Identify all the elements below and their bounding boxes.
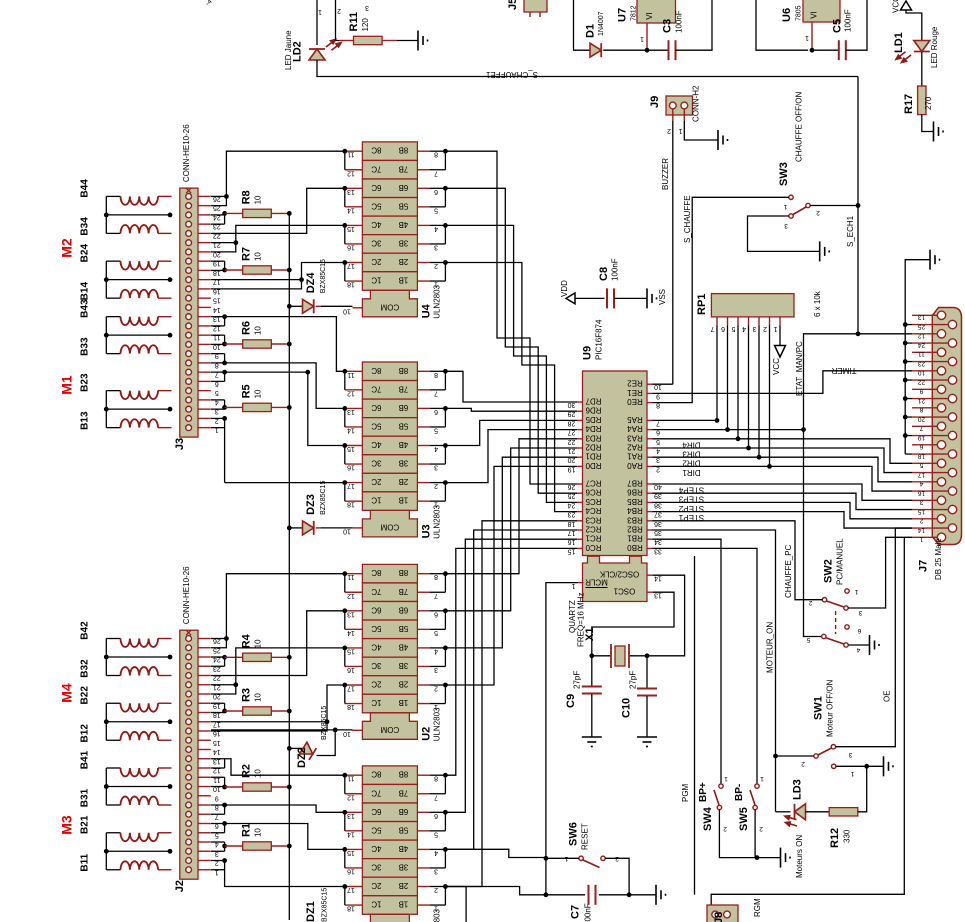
svg-text:8B: 8B — [399, 770, 409, 779]
svg-text:6: 6 — [919, 443, 923, 450]
svg-text:16: 16 — [347, 243, 355, 250]
svg-text:5: 5 — [215, 389, 219, 396]
svg-text:LD1: LD1 — [893, 32, 905, 53]
wire LD1 to R17 — [921, 52, 923, 86]
svg-text:R4: R4 — [241, 633, 253, 648]
motor winding B22 — [80, 686, 172, 712]
svg-text:17: 17 — [347, 482, 355, 489]
svg-text:RA0: RA0 — [627, 461, 643, 470]
svg-text:100nF: 100nF — [844, 9, 853, 32]
svg-text:10: 10 — [254, 693, 263, 702]
svg-text:3: 3 — [919, 499, 923, 506]
switch SW4 BP+ — [653, 539, 758, 857]
svg-text:RGM: RGM — [753, 898, 762, 917]
svg-text:4B: 4B — [399, 440, 409, 449]
svg-text:R6: R6 — [241, 321, 253, 335]
svg-text:2B: 2B — [399, 477, 409, 486]
net labels STEP1-STEP4 — [678, 486, 704, 523]
svg-text:10: 10 — [918, 369, 926, 376]
svg-text:5: 5 — [806, 636, 810, 643]
svg-text:9: 9 — [215, 794, 219, 801]
svg-text:1B: 1B — [399, 698, 409, 707]
svg-text:8: 8 — [919, 406, 923, 413]
svg-text:18: 18 — [347, 703, 355, 710]
svg-text:RESET: RESET — [581, 823, 590, 850]
svg-text:23: 23 — [918, 360, 926, 367]
svg-text:21: 21 — [918, 397, 926, 404]
svg-text:1B: 1B — [399, 496, 409, 505]
ground R17 — [922, 115, 943, 142]
switch SW2 PC/MANUEL — [806, 538, 862, 653]
svg-text:14: 14 — [213, 748, 221, 755]
svg-text:7: 7 — [919, 425, 923, 432]
svg-text:RC5: RC5 — [585, 497, 602, 506]
svg-text:VSS: VSS — [658, 289, 667, 305]
svg-text:2: 2 — [723, 825, 727, 832]
svg-text:B13: B13 — [80, 411, 91, 430]
svg-text:RD3: RD3 — [585, 433, 602, 442]
wire RP1 pins to PIC RA — [653, 326, 772, 469]
svg-text:R12: R12 — [829, 828, 841, 848]
svg-text:M4: M4 — [59, 683, 75, 703]
svg-text:BUZZER: BUZZER — [661, 158, 670, 190]
svg-text:7B: 7B — [399, 164, 409, 173]
svg-text:1: 1 — [318, 8, 322, 15]
crystal X1 QUARTZ — [568, 593, 649, 668]
svg-text:3: 3 — [365, 4, 369, 11]
svg-text:VDD: VDD — [560, 280, 569, 297]
svg-text:OE: OE — [883, 690, 892, 702]
diode D1 1N4007 — [585, 11, 606, 57]
svg-text:R11: R11 — [348, 12, 360, 32]
svg-text:BP-: BP- — [734, 784, 745, 801]
svg-text:7C: 7C — [371, 164, 381, 173]
svg-text:RC2: RC2 — [585, 525, 602, 534]
svg-text:2: 2 — [759, 825, 763, 832]
svg-text:ULN2803: ULN2803 — [433, 707, 442, 741]
svg-text:ULN2803: ULN2803 — [433, 908, 442, 922]
svg-text:MCLR: MCLR — [585, 578, 608, 587]
svg-text:6B: 6B — [399, 605, 409, 614]
wire C5 loop — [846, 0, 867, 50]
wire OE net — [836, 528, 912, 747]
wire MCLR net — [544, 583, 579, 898]
svg-text:12: 12 — [918, 332, 926, 339]
svg-text:10: 10 — [254, 769, 263, 778]
svg-text:5: 5 — [919, 462, 923, 469]
svg-text:J9: J9 — [649, 96, 661, 108]
svg-text:3: 3 — [858, 609, 862, 616]
svg-text:12: 12 — [347, 592, 355, 599]
svg-text:24: 24 — [918, 341, 926, 348]
svg-text:BZX85C15: BZX85C15 — [322, 888, 329, 922]
svg-text:U4: U4 — [421, 303, 433, 318]
motor winding B42 — [80, 621, 172, 647]
svg-text:RD0: RD0 — [585, 461, 602, 470]
capacitor C3 100nF — [662, 10, 684, 60]
svg-text:1: 1 — [783, 203, 787, 210]
driver IC U4 ULN2803 — [343, 142, 441, 319]
wire U2 outputs to J2 — [211, 574, 345, 731]
svg-text:SW1: SW1 — [813, 696, 825, 720]
svg-text:5B: 5B — [399, 201, 409, 210]
svg-text:RD6: RD6 — [585, 406, 602, 415]
svg-text:18: 18 — [347, 281, 355, 288]
wire LD2 to S_CHAUFFE1 line — [317, 60, 858, 77]
svg-text:U7: U7 — [617, 8, 629, 22]
svg-text:RD2: RD2 — [585, 443, 602, 452]
svg-text:13: 13 — [918, 314, 926, 321]
svg-text:6B: 6B — [399, 807, 409, 816]
svg-text:OSC2/CLK: OSC2/CLK — [599, 570, 639, 579]
wire SW3 pin3 to ground — [748, 216, 830, 261]
svg-text:19: 19 — [918, 434, 926, 441]
motor winding B41 — [80, 750, 172, 776]
LED LD1 red — [893, 26, 939, 68]
svg-text:BZX85C15: BZX85C15 — [320, 481, 327, 515]
svg-text:FREQ=16 MHz: FREQ=16 MHz — [577, 593, 586, 647]
svg-text:1C: 1C — [371, 900, 381, 909]
svg-text:RC4: RC4 — [585, 506, 602, 515]
svg-text:3B: 3B — [399, 862, 409, 871]
wire DB25 ground bus — [903, 250, 940, 454]
svg-text:C9: C9 — [565, 694, 577, 708]
svg-text:C8: C8 — [598, 267, 610, 281]
LED LD2 yellow — [284, 30, 341, 70]
svg-text:J8: J8 — [713, 912, 725, 922]
wire MOTEUR_ON — [653, 530, 778, 812]
svg-text:RA3: RA3 — [627, 433, 643, 442]
motor winding B32 — [80, 659, 172, 678]
svg-text:RC7: RC7 — [585, 479, 602, 488]
microcontroller U9 PIC16F874 — [568, 319, 662, 556]
svg-text:CHAUFFE OFF/ON: CHAUFFE OFF/ON — [795, 92, 804, 162]
wire ULN input pairs — [430, 571, 448, 703]
svg-text:D1: D1 — [585, 24, 597, 38]
svg-text:1: 1 — [805, 34, 809, 41]
svg-text:RP1: RP1 — [696, 294, 708, 315]
svg-text:5C: 5C — [371, 201, 381, 210]
ground SW2 — [848, 635, 879, 655]
driver IC U1 ULN2803 — [345, 766, 442, 922]
wire center tap B4x — [104, 196, 173, 233]
svg-text:6B: 6B — [399, 183, 409, 192]
svg-text:BP+: BP+ — [698, 782, 709, 802]
svg-text:2C: 2C — [371, 680, 381, 689]
resistor R5 — [211, 384, 292, 411]
svg-text:14: 14 — [347, 629, 355, 636]
wire U2 COM line — [211, 729, 353, 731]
ground R11 — [397, 31, 428, 51]
wire OSC2 to crystal — [647, 575, 685, 656]
svg-text:4B: 4B — [399, 642, 409, 651]
wire bus U3 to PIC RD7-RD4 — [445, 371, 577, 482]
svg-text:RE0: RE0 — [627, 397, 643, 406]
switch SW6 RESET — [546, 822, 629, 895]
capacitor C9 27pF — [565, 656, 602, 747]
svg-text:10: 10 — [254, 389, 263, 398]
svg-text:10: 10 — [343, 307, 351, 314]
motor winding B34 — [80, 217, 172, 236]
svg-text:8B: 8B — [399, 568, 409, 577]
wire ULN output pairs — [342, 369, 347, 501]
svg-text:13: 13 — [347, 610, 355, 617]
wire center tap B2x — [104, 261, 173, 298]
wire to SW6 — [445, 849, 546, 857]
svg-text:100nF: 100nF — [675, 10, 684, 33]
svg-text:6 x 10k: 6 x 10k — [813, 290, 822, 317]
svg-text:14: 14 — [347, 426, 355, 433]
zener diode DZ3 BZX85C15 — [287, 481, 327, 535]
svg-text:DZ4: DZ4 — [305, 272, 317, 294]
svg-text:VCC: VCC — [892, 0, 901, 13]
LED LD3 — [776, 779, 806, 878]
svg-text:RD4: RD4 — [585, 424, 602, 433]
svg-text:7B: 7B — [399, 587, 409, 596]
svg-text:1: 1 — [678, 127, 682, 134]
svg-text:RA5: RA5 — [627, 415, 643, 424]
svg-text:PIC16F874: PIC16F874 — [595, 319, 604, 360]
svg-text:1N4007: 1N4007 — [598, 11, 605, 36]
resistor R4 — [211, 633, 292, 666]
svg-text:330: 330 — [843, 829, 852, 843]
svg-text:J2: J2 — [174, 880, 186, 892]
svg-text:B32: B32 — [80, 659, 91, 678]
svg-text:7B: 7B — [399, 788, 409, 797]
wire D1 to U7 — [603, 49, 647, 51]
svg-text:R17: R17 — [903, 94, 915, 114]
svg-text:PC/MANUEL: PC/MANUEL — [836, 538, 845, 585]
svg-text:6B: 6B — [399, 403, 409, 412]
connector J9 CONN-H2 — [649, 85, 701, 134]
svg-text:17: 17 — [347, 262, 355, 269]
svg-text:B33: B33 — [80, 337, 91, 356]
svg-text:6C: 6C — [371, 807, 381, 816]
capacitor C8 100nF — [598, 258, 646, 308]
motor winding B24 — [80, 244, 172, 270]
motor winding B13 — [80, 411, 172, 430]
svg-text:16: 16 — [918, 489, 926, 496]
svg-text:6: 6 — [857, 627, 861, 634]
wire center tap B2x — [104, 833, 173, 870]
wire PGM net — [681, 556, 695, 895]
wire ULN output pairs — [342, 149, 347, 281]
svg-text:SW6: SW6 — [568, 822, 580, 846]
svg-text:SW2: SW2 — [823, 559, 835, 583]
svg-text:2: 2 — [919, 517, 923, 524]
wire SW1 pin1 — [836, 756, 893, 776]
svg-text:RA1: RA1 — [627, 452, 643, 461]
svg-text:DZ3: DZ3 — [305, 494, 317, 515]
svg-text:8C: 8C — [371, 146, 381, 155]
svg-text:100nF: 100nF — [611, 258, 620, 281]
svg-text:2C: 2C — [371, 257, 381, 266]
svg-text:15: 15 — [347, 849, 355, 856]
ground J9 — [684, 121, 727, 150]
svg-text:7B: 7B — [399, 384, 409, 393]
resistor network RP1 6x10k — [696, 290, 822, 332]
svg-text:11: 11 — [347, 775, 354, 782]
svg-text:8B: 8B — [399, 146, 409, 155]
svg-text:DZ2: DZ2 — [296, 747, 308, 768]
regulator U6 7805 — [781, 0, 840, 53]
svg-text:SW4: SW4 — [702, 806, 714, 831]
svg-text:COM: COM — [380, 522, 399, 531]
ground SW4 SW5 — [781, 848, 791, 868]
svg-text:18: 18 — [918, 452, 926, 459]
svg-text:4B: 4B — [399, 220, 409, 229]
wire U7 to C3 — [647, 49, 669, 51]
svg-text:3B: 3B — [399, 661, 409, 670]
resistor R6 — [211, 321, 292, 348]
svg-text:DB 25 Male: DB 25 Male — [934, 538, 943, 580]
svg-text:2: 2 — [816, 209, 820, 216]
wire U1 pair to C7 line — [445, 887, 546, 922]
wire center tap B2x — [104, 391, 173, 428]
wire ULN input pairs — [430, 149, 448, 281]
svg-text:2: 2 — [337, 7, 341, 14]
svg-text:1: 1 — [760, 775, 764, 782]
wire loop 12V section — [574, 0, 591, 50]
svg-text:6C: 6C — [371, 605, 381, 614]
svg-text:4C: 4C — [371, 642, 381, 651]
ground C7 — [629, 885, 665, 905]
resistor R3 — [211, 688, 292, 715]
svg-text:J3: J3 — [174, 438, 186, 450]
wire ULN output pairs — [342, 571, 347, 703]
svg-text:1: 1 — [640, 35, 644, 42]
svg-text:J5: J5 — [507, 0, 519, 10]
svg-text:B21: B21 — [80, 815, 91, 834]
wire pin2 to R11 — [336, 0, 341, 41]
svg-text:15: 15 — [213, 297, 221, 304]
svg-text:RE1: RE1 — [627, 388, 643, 397]
wire ULN input pairs — [430, 369, 448, 501]
svg-text:B14: B14 — [80, 282, 91, 301]
svg-text:5B: 5B — [399, 624, 409, 633]
svg-text:LD3: LD3 — [792, 779, 804, 800]
connector J5 (top edge) — [507, 0, 547, 17]
svg-text:6C: 6C — [371, 403, 381, 412]
svg-text:RA2: RA2 — [627, 443, 643, 452]
svg-text:SW3: SW3 — [778, 162, 790, 186]
svg-text:22: 22 — [918, 378, 926, 385]
svg-text:2: 2 — [667, 127, 671, 134]
svg-text:3C: 3C — [371, 661, 381, 670]
svg-text:17: 17 — [918, 471, 926, 478]
svg-text:11: 11 — [918, 351, 925, 358]
svg-text:1: 1 — [850, 770, 854, 777]
svg-text:S_ECH1: S_ECH1 — [846, 215, 855, 247]
wire bus U2 to PIC RD3-RD0 — [445, 439, 577, 685]
svg-text:15: 15 — [347, 445, 355, 452]
svg-text:6: 6 — [721, 325, 725, 332]
svg-text:ULN2803: ULN2803 — [433, 284, 442, 318]
svg-text:RB4: RB4 — [627, 506, 643, 515]
svg-text:S_CHAUFFE: S_CHAUFFE — [683, 195, 692, 243]
svg-text:8B: 8B — [399, 366, 409, 375]
svg-text:6C: 6C — [371, 183, 381, 192]
svg-text:11: 11 — [347, 151, 354, 158]
wire center tap B4x — [104, 639, 173, 676]
svg-text:2B: 2B — [399, 881, 409, 890]
svg-text:B42: B42 — [80, 621, 91, 640]
wire CHAUFFE_PC — [653, 521, 823, 600]
svg-text:4B: 4B — [399, 844, 409, 853]
svg-text:RE2: RE2 — [627, 379, 643, 388]
motor winding B31 — [80, 788, 172, 807]
svg-text:2: 2 — [801, 760, 805, 767]
connector J2 CONN-HE10-26 — [174, 566, 221, 892]
svg-text:18: 18 — [347, 501, 355, 508]
svg-text:U9: U9 — [582, 346, 594, 360]
svg-text:RB2: RB2 — [627, 525, 643, 534]
svg-text:27pF: 27pF — [573, 671, 582, 689]
svg-text:1: 1 — [724, 775, 728, 782]
wire ETAT_MAN/PC net — [653, 334, 913, 637]
svg-text:5B: 5B — [399, 825, 409, 834]
svg-text:15: 15 — [347, 647, 355, 654]
svg-text:R8: R8 — [241, 190, 253, 204]
connector J8 CONN-H2 — [707, 905, 738, 922]
svg-text:15: 15 — [213, 739, 221, 746]
svg-text:7805: 7805 — [796, 5, 803, 21]
svg-text:12: 12 — [347, 793, 355, 800]
svg-text:10: 10 — [254, 326, 263, 335]
svg-text:12: 12 — [347, 169, 355, 176]
svg-text:COM: COM — [380, 725, 399, 734]
resistor R7 — [211, 247, 292, 274]
svg-text:10: 10 — [254, 828, 263, 837]
svg-text:13: 13 — [347, 408, 355, 415]
resistor R12 330 — [806, 766, 867, 848]
svg-text:B41: B41 — [80, 750, 91, 769]
svg-text:2C: 2C — [371, 477, 381, 486]
svg-text:VI: VI — [645, 12, 654, 20]
svg-text:PGM: PGM — [681, 783, 690, 802]
zener diode DZ1 BZX85C15 — [305, 888, 329, 922]
svg-text:B34: B34 — [80, 217, 91, 236]
svg-text:7C: 7C — [371, 788, 381, 797]
svg-text:27pF: 27pF — [629, 671, 638, 689]
svg-text:C10: C10 — [621, 698, 633, 718]
svg-text:C5: C5 — [832, 19, 844, 33]
svg-text:1C: 1C — [371, 496, 381, 505]
svg-text:2B: 2B — [399, 680, 409, 689]
svg-text:7812: 7812 — [631, 5, 638, 21]
svg-text:CONN-H2: CONN-H2 — [692, 85, 701, 122]
svg-text:CONN-HE10-26: CONN-HE10-26 — [182, 566, 191, 624]
svg-text:4C: 4C — [371, 220, 381, 229]
svg-text:5C: 5C — [371, 825, 381, 834]
motor winding B11 — [80, 853, 172, 871]
svg-text:VI: VI — [810, 11, 819, 19]
wire ULN input pairs — [430, 773, 448, 905]
svg-text:J7: J7 — [918, 560, 930, 572]
svg-text:U6: U6 — [781, 8, 793, 22]
svg-text:8C: 8C — [371, 568, 381, 577]
svg-text:M2: M2 — [59, 238, 75, 258]
wire STEP nets to DB25 — [653, 484, 913, 528]
svg-text:3: 3 — [848, 751, 852, 758]
svg-text:12: 12 — [347, 389, 355, 396]
svg-text:S_CHAUFFE1: S_CHAUFFE1 — [485, 70, 538, 79]
resistor R8 — [211, 190, 292, 224]
wire bus U4 to PIC RC7-RC4 — [445, 151, 577, 511]
svg-text:2: 2 — [763, 325, 767, 332]
wire SW3 pin2 to S_ECH1 — [810, 77, 860, 337]
svg-text:3B: 3B — [399, 459, 409, 468]
